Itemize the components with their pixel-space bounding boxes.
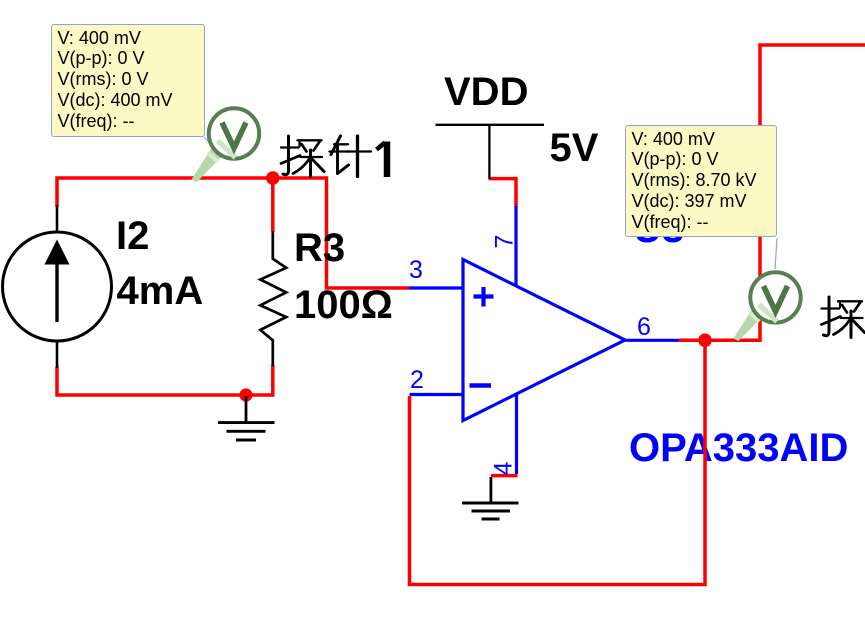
- wire: input net from I2 top to op-amp pin3 (red): [57, 178, 409, 288]
- voltage probe 1 ring: [209, 108, 259, 158]
- tooltip for probe 1: [51, 24, 205, 137]
- voltage probe 1 handle: [192, 147, 223, 182]
- power value 5V: [550, 128, 599, 168]
- probe 1 name numeral 1: [377, 142, 388, 178]
- probe 2 name text 探 (partially cut at right edge): [822, 297, 865, 338]
- op-amp U1 pin2 stub (blue): [410, 393, 464, 396]
- wire: feedback loop output to pin2 (red): [410, 341, 706, 585]
- voltage probe 2 handle: [734, 307, 764, 342]
- op-amp U1 plus symbol: [474, 287, 494, 307]
- op-amp designator U3 (mostly hidden behind tooltip): [633, 209, 684, 249]
- pin number 4 (rotated): [491, 462, 516, 476]
- node: junction dot at op-amp output: [698, 334, 712, 348]
- resistor R3 zigzag: [260, 232, 286, 367]
- current source I2 bottom lead: [56, 340, 59, 368]
- op-amp U1 pin6 output stub (blue): [625, 339, 679, 342]
- resistor value 100&Omega;: [294, 285, 393, 325]
- pin number 6: [637, 315, 651, 340]
- node: junction dot at ground of R3: [239, 388, 252, 401]
- current source I2 arrow: [55, 252, 58, 322]
- op-amp U1 pin7 stub (blue): [514, 206, 517, 285]
- power label VDD: [444, 72, 528, 112]
- pin number 2: [410, 368, 424, 393]
- resistor designator R3: [294, 228, 345, 268]
- source designator I2: [116, 216, 149, 256]
- leader line tooltip1 to probe1: [204, 137, 212, 146]
- ground symbol under op-amp pin4: [489, 477, 492, 503]
- source value 4mA: [117, 271, 204, 311]
- pin number 7 (rotated): [492, 235, 517, 249]
- tooltip for probe 2: [625, 125, 777, 237]
- wire: junction to resistor R3 top (red): [271, 177, 275, 233]
- power rail VDD bar: [436, 125, 545, 179]
- op-amp U1 minus symbol: [470, 383, 492, 388]
- op-amp U1 pin3 stub (blue): [409, 286, 463, 289]
- voltage probe 2 ring: [750, 272, 800, 322]
- voltage probe 1 V letter: [222, 123, 246, 149]
- voltage probe 2 V letter: [764, 286, 788, 312]
- current source I2 top lead: [56, 205, 59, 233]
- leader line tooltip2 to probe2: [775, 238, 777, 269]
- wire: VDD elbow to op-amp pin7 (red): [489, 179, 517, 207]
- node: junction dot at probe 1: [266, 171, 280, 185]
- op-amp U1 pin4 stub (blue): [515, 395, 518, 474]
- current source I2 circle: [3, 232, 112, 341]
- wire: op-amp pin4 elbow to ground (red): [491, 474, 518, 478]
- wire: ground net along bottom of I2 / R3 (red): [57, 365, 273, 395]
- wire: output net to top-right (red): [679, 45, 865, 340]
- op-amp part label OPA333AID: [629, 428, 848, 468]
- op-amp U1 triangle body: [463, 260, 625, 421]
- probe 1 name text 探针1 (drawn glyphs): [281, 136, 324, 177]
- pin number 3: [409, 258, 423, 283]
- ground symbol under R3: [245, 396, 248, 422]
